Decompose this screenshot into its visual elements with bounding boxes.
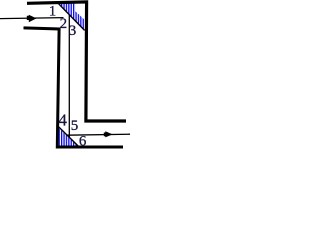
- inlet arrowhead: [27, 15, 37, 23]
- outlet arrowhead: [104, 131, 113, 137]
- top hatch band (porous screen at upper bend): [58, 4, 84, 31]
- svg-text:6: 6: [79, 134, 87, 150]
- outlet flow line: [67, 134, 131, 135]
- svg-text:2: 2: [60, 16, 68, 32]
- svg-text:3: 3: [69, 23, 77, 39]
- svg-text:4: 4: [58, 110, 67, 129]
- vertical flow line in the drop channel: [68, 15, 70, 137]
- bottom hatch band (porous screen at lower bend): [59, 128, 78, 146]
- inner duct wall (left step): [24, 28, 124, 147]
- diagonal guide vane at upper bend: [59, 4, 85, 31]
- svg-text:5: 5: [71, 118, 79, 134]
- inlet flow line: [0, 18, 64, 19]
- Z-duct flow schematic with numbered stations 1-6: [0, 0, 130, 151]
- diagonal guide vane at lower bend: [59, 127, 79, 146]
- outer duct wall (top, right, lower-right): [27, 2, 126, 121]
- svg-text:1: 1: [49, 3, 57, 19]
